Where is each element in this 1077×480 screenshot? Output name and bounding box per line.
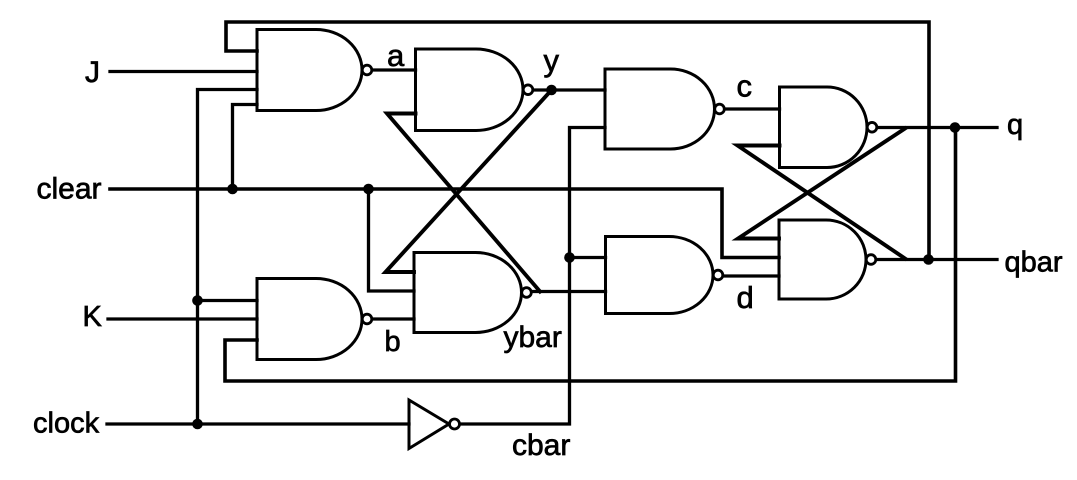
svg-text:K: K bbox=[83, 301, 103, 333]
junction clear/U1 bbox=[227, 184, 238, 195]
svg-text:ybar: ybar bbox=[504, 321, 562, 354]
wire node cbar riser bbox=[460, 128, 606, 425]
node q junction bbox=[950, 122, 961, 133]
NAND gate U7 (d gate) bbox=[606, 237, 714, 314]
svg-text:cbar: cbar bbox=[512, 429, 570, 462]
wire q cross to U8 bbox=[738, 129, 905, 239]
bubble U5 output bbox=[362, 314, 372, 324]
wire clock input bbox=[107, 422, 409, 425]
svg-text:c: c bbox=[737, 69, 753, 104]
node qbar junction bbox=[923, 254, 934, 265]
wire node y cross to U6 bbox=[386, 90, 552, 272]
wire clock branch to U5 bbox=[198, 299, 258, 302]
wire node b bbox=[372, 317, 414, 320]
wire q output bbox=[877, 126, 997, 129]
junction clock/U5 bbox=[192, 295, 203, 306]
bubble U8 output bbox=[866, 255, 876, 265]
wire node y to U3 bbox=[533, 88, 605, 91]
wire node ybar to U7 bbox=[532, 290, 606, 293]
NAND gate U8 (qbar gate) bbox=[779, 220, 866, 299]
svg-text:J: J bbox=[85, 56, 100, 89]
wire J input bbox=[110, 70, 257, 73]
bubble U4 output bbox=[867, 122, 877, 132]
wire node d bbox=[723, 274, 779, 277]
wire bottom feedback (q to gate U5) bbox=[225, 128, 956, 382]
NAND gate U2 (y gate) bbox=[416, 49, 524, 131]
wire clear branch to U1 bbox=[233, 105, 258, 190]
wire node c bbox=[725, 107, 780, 110]
NAND gate U5 (K input gate) bbox=[257, 279, 362, 360]
bubble U1 output bbox=[362, 65, 372, 75]
node cbar junction at U7 bbox=[564, 252, 575, 263]
NAND gate U4 (q gate) bbox=[780, 87, 868, 168]
svg-text:d: d bbox=[737, 280, 754, 315]
svg-text:a: a bbox=[387, 38, 405, 73]
NAND gate U1 (J input gate) bbox=[257, 30, 362, 111]
wire clock riser to U1 and U5 bbox=[198, 90, 258, 425]
svg-text:y: y bbox=[544, 43, 560, 78]
wire clear branch to U6 bbox=[369, 189, 415, 291]
bubble U3 output bbox=[715, 104, 725, 114]
svg-text:q: q bbox=[1007, 109, 1023, 141]
wire node a bbox=[372, 68, 416, 71]
bubble U2 output bbox=[523, 85, 533, 95]
wire top feedback (qbar to gate U1) bbox=[226, 22, 929, 260]
svg-text:qbar: qbar bbox=[1005, 247, 1063, 279]
node y junction bbox=[546, 85, 557, 96]
inverter U9 (clock to cbar) bbox=[409, 400, 449, 449]
bubble U6 output bbox=[522, 288, 532, 298]
bubble U7 output bbox=[713, 270, 723, 280]
NAND gate U6 (ybar gate) bbox=[414, 253, 522, 333]
bubble U9 output bbox=[450, 419, 460, 429]
wire qbar cross to U4 bbox=[738, 146, 906, 259]
junction clear/U6 bbox=[363, 184, 374, 195]
wire cbar branch to U7 bbox=[570, 256, 606, 259]
svg-text:b: b bbox=[385, 326, 401, 358]
wire qbar output bbox=[876, 258, 997, 261]
wire node ybar cross to U2 bbox=[387, 114, 540, 292]
NAND gate U3 (c gate) bbox=[605, 69, 715, 149]
svg-text:clear: clear bbox=[37, 173, 102, 206]
svg-text:clock: clock bbox=[33, 408, 100, 440]
wire clear input bbox=[110, 189, 779, 258]
junction clock riser bbox=[192, 419, 203, 430]
wire K input bbox=[108, 317, 257, 320]
